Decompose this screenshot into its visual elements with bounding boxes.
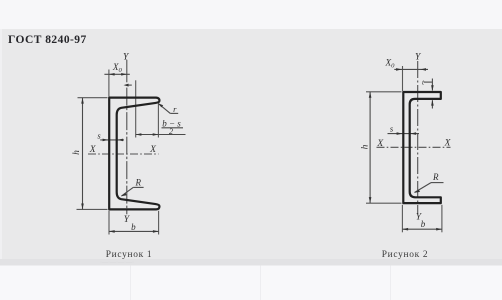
fig1 X-X axis (horizontal centroid axis, dash-dot): [88, 153, 159, 155]
background table header row: [0, 259, 502, 266]
background bottom white band: [0, 266, 502, 300]
fig2 b dimension: [402, 205, 442, 233]
fig1 channel section outline: [109, 98, 159, 210]
fig1 leader r (flange tip radius): [158, 103, 178, 114]
svg-text:2: 2: [169, 127, 173, 136]
svg-text:X: X: [376, 139, 384, 149]
fig1 Y axis (vertical centroid axis, dash-dot): [126, 60, 128, 215]
fig1 extension line web-outer up (for X0): [108, 70, 110, 97]
fig1 X0 dimension line: [104, 73, 129, 75]
fig2 Y axis (dash-dot): [417, 61, 419, 213]
fig1 (b-s)/2 dimension line: [136, 134, 186, 136]
fig2 s dimension: [388, 124, 420, 135]
bottom column separator 1: [130, 266, 131, 300]
bottom column separator 2: [260, 266, 261, 300]
svg-text:Рисунок 2: Рисунок 2: [382, 250, 429, 260]
svg-text:ГОСТ 8240-97: ГОСТ 8240-97: [8, 34, 87, 46]
fig1 slope tick arrow on Y axis: [124, 84, 132, 87]
fig1 s dimension: [97, 130, 124, 141]
fig2 X0 arrow right: [420, 68, 426, 71]
svg-text:Рисунок 1: Рисунок 1: [106, 250, 153, 260]
background gray drawing band: [0, 29, 502, 259]
fig1 label (b-s)/2 fraction: [162, 118, 184, 136]
fig2 t dimension (flange thickness): [422, 77, 434, 108]
fig1 (b-s)/2 arrow right: [153, 133, 159, 136]
background top white band: [0, 0, 502, 29]
svg-text:R: R: [134, 178, 141, 188]
fig1 X0 arrow right: [121, 73, 127, 76]
fig2 channel section outline: [403, 92, 441, 203]
fig1 R leader (web fillet radius): [121, 178, 143, 197]
fig2 X0 dimension line: [394, 68, 428, 70]
svg-text:·—·—·—·—·: ·—·—·—·—·: [100, 260, 134, 266]
fig1 (b-s)/2 arrow left: [136, 133, 142, 136]
svg-text:h: h: [72, 150, 82, 155]
svg-text:b: b: [421, 219, 426, 229]
svg-text:b: b: [131, 222, 136, 232]
fig2 X-X axis (dash-dot): [377, 146, 451, 148]
bottom column separator 3: [390, 266, 391, 300]
svg-text:X: X: [149, 145, 157, 155]
svg-text:R: R: [432, 172, 439, 182]
fig2 X0 arrow left: [396, 68, 402, 71]
fig1 h dimension: [72, 98, 108, 210]
fig1 extension line (b-s)/2 left: [135, 80, 137, 137]
svg-text:X: X: [444, 139, 452, 149]
svg-text:X: X: [89, 145, 97, 155]
fig1 extension line (b-s)/2 right (from flange tip): [157, 104, 159, 138]
fig1 b dimension: [109, 211, 159, 235]
fig2 R leader (web fillet radius): [414, 172, 443, 193]
svg-text:h: h: [360, 144, 370, 149]
fig2 extension line web-outer up (for X0): [402, 66, 404, 91]
fig2 h dimension: [360, 92, 401, 203]
fig1 X0 arrow left: [109, 73, 115, 76]
